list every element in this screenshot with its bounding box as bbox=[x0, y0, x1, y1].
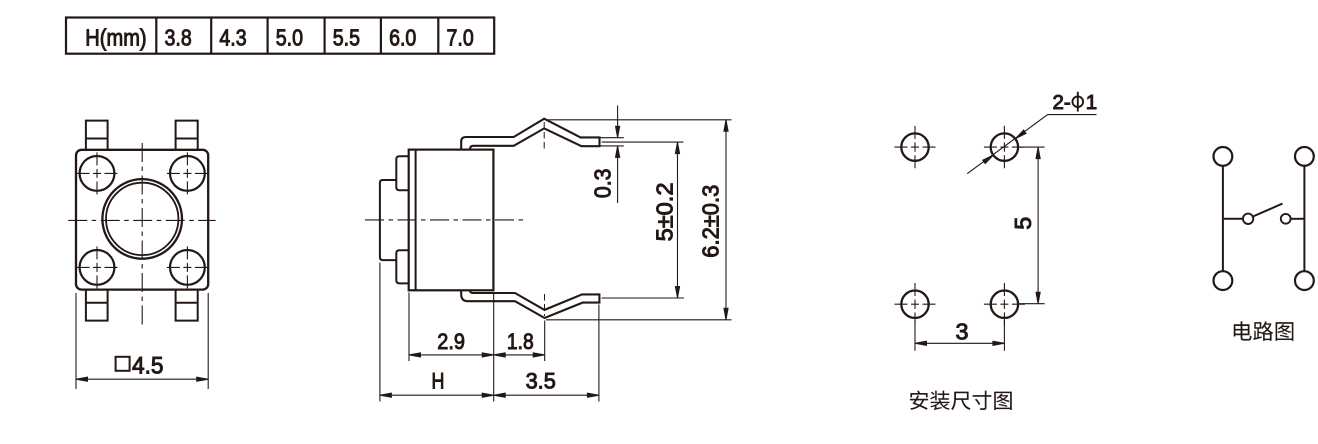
dimension 0.3 arrows and leader bbox=[616, 106, 620, 204]
side view: bottom lead vertex center mark bbox=[544, 294, 546, 316]
top view: corner rivet circle (upper-right) with center marks bbox=[167, 152, 208, 194]
circuit: terminal circle top-left bbox=[1214, 147, 1233, 166]
svg-text:7.0: 7.0 bbox=[447, 24, 474, 50]
side view: horizontal center line bbox=[365, 219, 524, 221]
svg-text:4.3: 4.3 bbox=[219, 24, 246, 50]
extension line at bottom lead vertex (6.2 bottom) bbox=[546, 319, 732, 321]
dimension square-4.5 : label bbox=[116, 353, 164, 380]
dimension H line and arrows bbox=[380, 393, 494, 397]
dim extension line from body right bbox=[493, 293, 495, 402]
svg-text:6.2±0.3: 6.2±0.3 bbox=[698, 185, 724, 258]
top view: lower-left terminal tab bbox=[86, 290, 108, 321]
circuit: left contact circle bbox=[1243, 214, 1253, 224]
circuit: terminal circle top-right bbox=[1295, 147, 1314, 166]
svg-text:5.0: 5.0 bbox=[276, 24, 303, 50]
circuit: left wire bbox=[1222, 166, 1224, 271]
circuit: right contact circle bbox=[1281, 214, 1291, 224]
label: circuit diagram caption (CJK glyph paths) bbox=[1234, 321, 1294, 341]
svg-text:5.5: 5.5 bbox=[333, 24, 360, 50]
side view: lower mounting boss bbox=[396, 250, 408, 283]
svg-text:2.9: 2.9 bbox=[437, 329, 465, 354]
top view: central push button (double circle) bbox=[102, 179, 182, 259]
dimension 6.2±0.3 line and arrows bbox=[724, 120, 728, 320]
svg-text:2-: 2- bbox=[1053, 91, 1071, 114]
2-phi1 label bbox=[1053, 91, 1098, 114]
side view: bottom bent terminal lead bbox=[461, 290, 599, 318]
dimension 2.9 line and arrows bbox=[409, 353, 494, 357]
circuit: terminal circle bottom-right bbox=[1295, 271, 1314, 290]
dimension 5±0.2 line and arrows bbox=[675, 142, 679, 298]
top view: corner rivet circle (lower-left) with center marks bbox=[77, 246, 118, 288]
svg-text:H: H bbox=[432, 369, 445, 394]
dimension 3 extension lines bbox=[915, 320, 1004, 351]
svg-text:5: 5 bbox=[1010, 217, 1036, 230]
side view: plunger/stem bbox=[380, 180, 396, 260]
dimension square-4.5 : dimension line with arrows bbox=[76, 377, 208, 381]
2-phi1 leader line with shelf and arrows bbox=[967, 115, 1096, 174]
top view: lower-right terminal tab bbox=[176, 290, 198, 321]
circuit: terminal circle bottom-left bbox=[1214, 271, 1233, 290]
top view: upper-right terminal tab bbox=[176, 121, 198, 150]
svg-text:6.0: 6.0 bbox=[389, 24, 416, 50]
mounting layout: hole upper-right bbox=[984, 126, 1025, 168]
dim extension line from lead end bbox=[598, 305, 600, 402]
dimension 1.8 line and arrows bbox=[494, 353, 545, 357]
dimension 3.5 line and arrows bbox=[494, 393, 599, 397]
svg-text:H(mm): H(mm) bbox=[85, 24, 146, 50]
circuit: left contact stub wire bbox=[1223, 218, 1243, 220]
side view: top bent terminal lead bbox=[461, 119, 599, 150]
dimension square-4.5 : extension lines bbox=[76, 293, 208, 389]
top view: switch body outline bbox=[76, 150, 208, 290]
mounting layout: hole lower-right bbox=[984, 283, 1025, 325]
svg-text:3.8: 3.8 bbox=[165, 24, 192, 50]
top view: vertical center line bbox=[141, 143, 143, 327]
dim extension line from plunger tip bbox=[379, 263, 381, 402]
circuit: right wire bbox=[1303, 166, 1305, 271]
dimension 5 (vertical) extension lines bbox=[1019, 147, 1045, 304]
top view: corner rivet circle (lower-right) with center marks bbox=[167, 246, 208, 288]
dim extension line from body left bbox=[408, 293, 410, 362]
dimension 5 (vertical) line and arrows bbox=[1036, 147, 1040, 304]
top view: upper-left terminal tab bbox=[86, 121, 108, 150]
svg-text:0.3: 0.3 bbox=[590, 168, 616, 198]
side view: top lead peak center mark bbox=[543, 122, 545, 149]
side view: switch body bbox=[409, 150, 494, 291]
circuit: switch lever bbox=[1253, 204, 1283, 217]
mounting layout: hole lower-left bbox=[895, 283, 936, 325]
mounting layout: hole upper-left bbox=[895, 126, 936, 168]
top view: horizontal center line bbox=[68, 219, 216, 221]
dimension 3 line and arrows bbox=[915, 341, 1004, 345]
svg-text:3: 3 bbox=[956, 319, 969, 345]
dim extension line from bottom lead vertex bbox=[544, 321, 546, 362]
top view: corner rivet circle (upper-left) with center marks bbox=[77, 152, 118, 194]
label: mounting dimensions caption (CJK glyph paths) bbox=[910, 391, 1012, 411]
svg-text:1: 1 bbox=[1086, 91, 1097, 114]
extension line at top lead peak (6.2 top) bbox=[547, 119, 732, 121]
extension line at lead end top (0.3 top) bbox=[601, 137, 624, 139]
extension line at lead end bottom (0.3 bottom) bbox=[601, 145, 624, 147]
svg-text:5±0.2: 5±0.2 bbox=[652, 183, 678, 242]
svg-text:1.8: 1.8 bbox=[507, 329, 534, 354]
H(mm) height-options table bbox=[66, 18, 494, 54]
extension line at lead mid (5 top) bbox=[602, 141, 684, 143]
side view: upper mounting boss bbox=[396, 156, 408, 190]
svg-text:3.5: 3.5 bbox=[526, 369, 556, 394]
svg-text:4.5: 4.5 bbox=[132, 353, 164, 380]
extension line at bottom lead end (5 bottom) bbox=[602, 297, 685, 299]
circuit: right contact stub wire bbox=[1291, 218, 1305, 220]
